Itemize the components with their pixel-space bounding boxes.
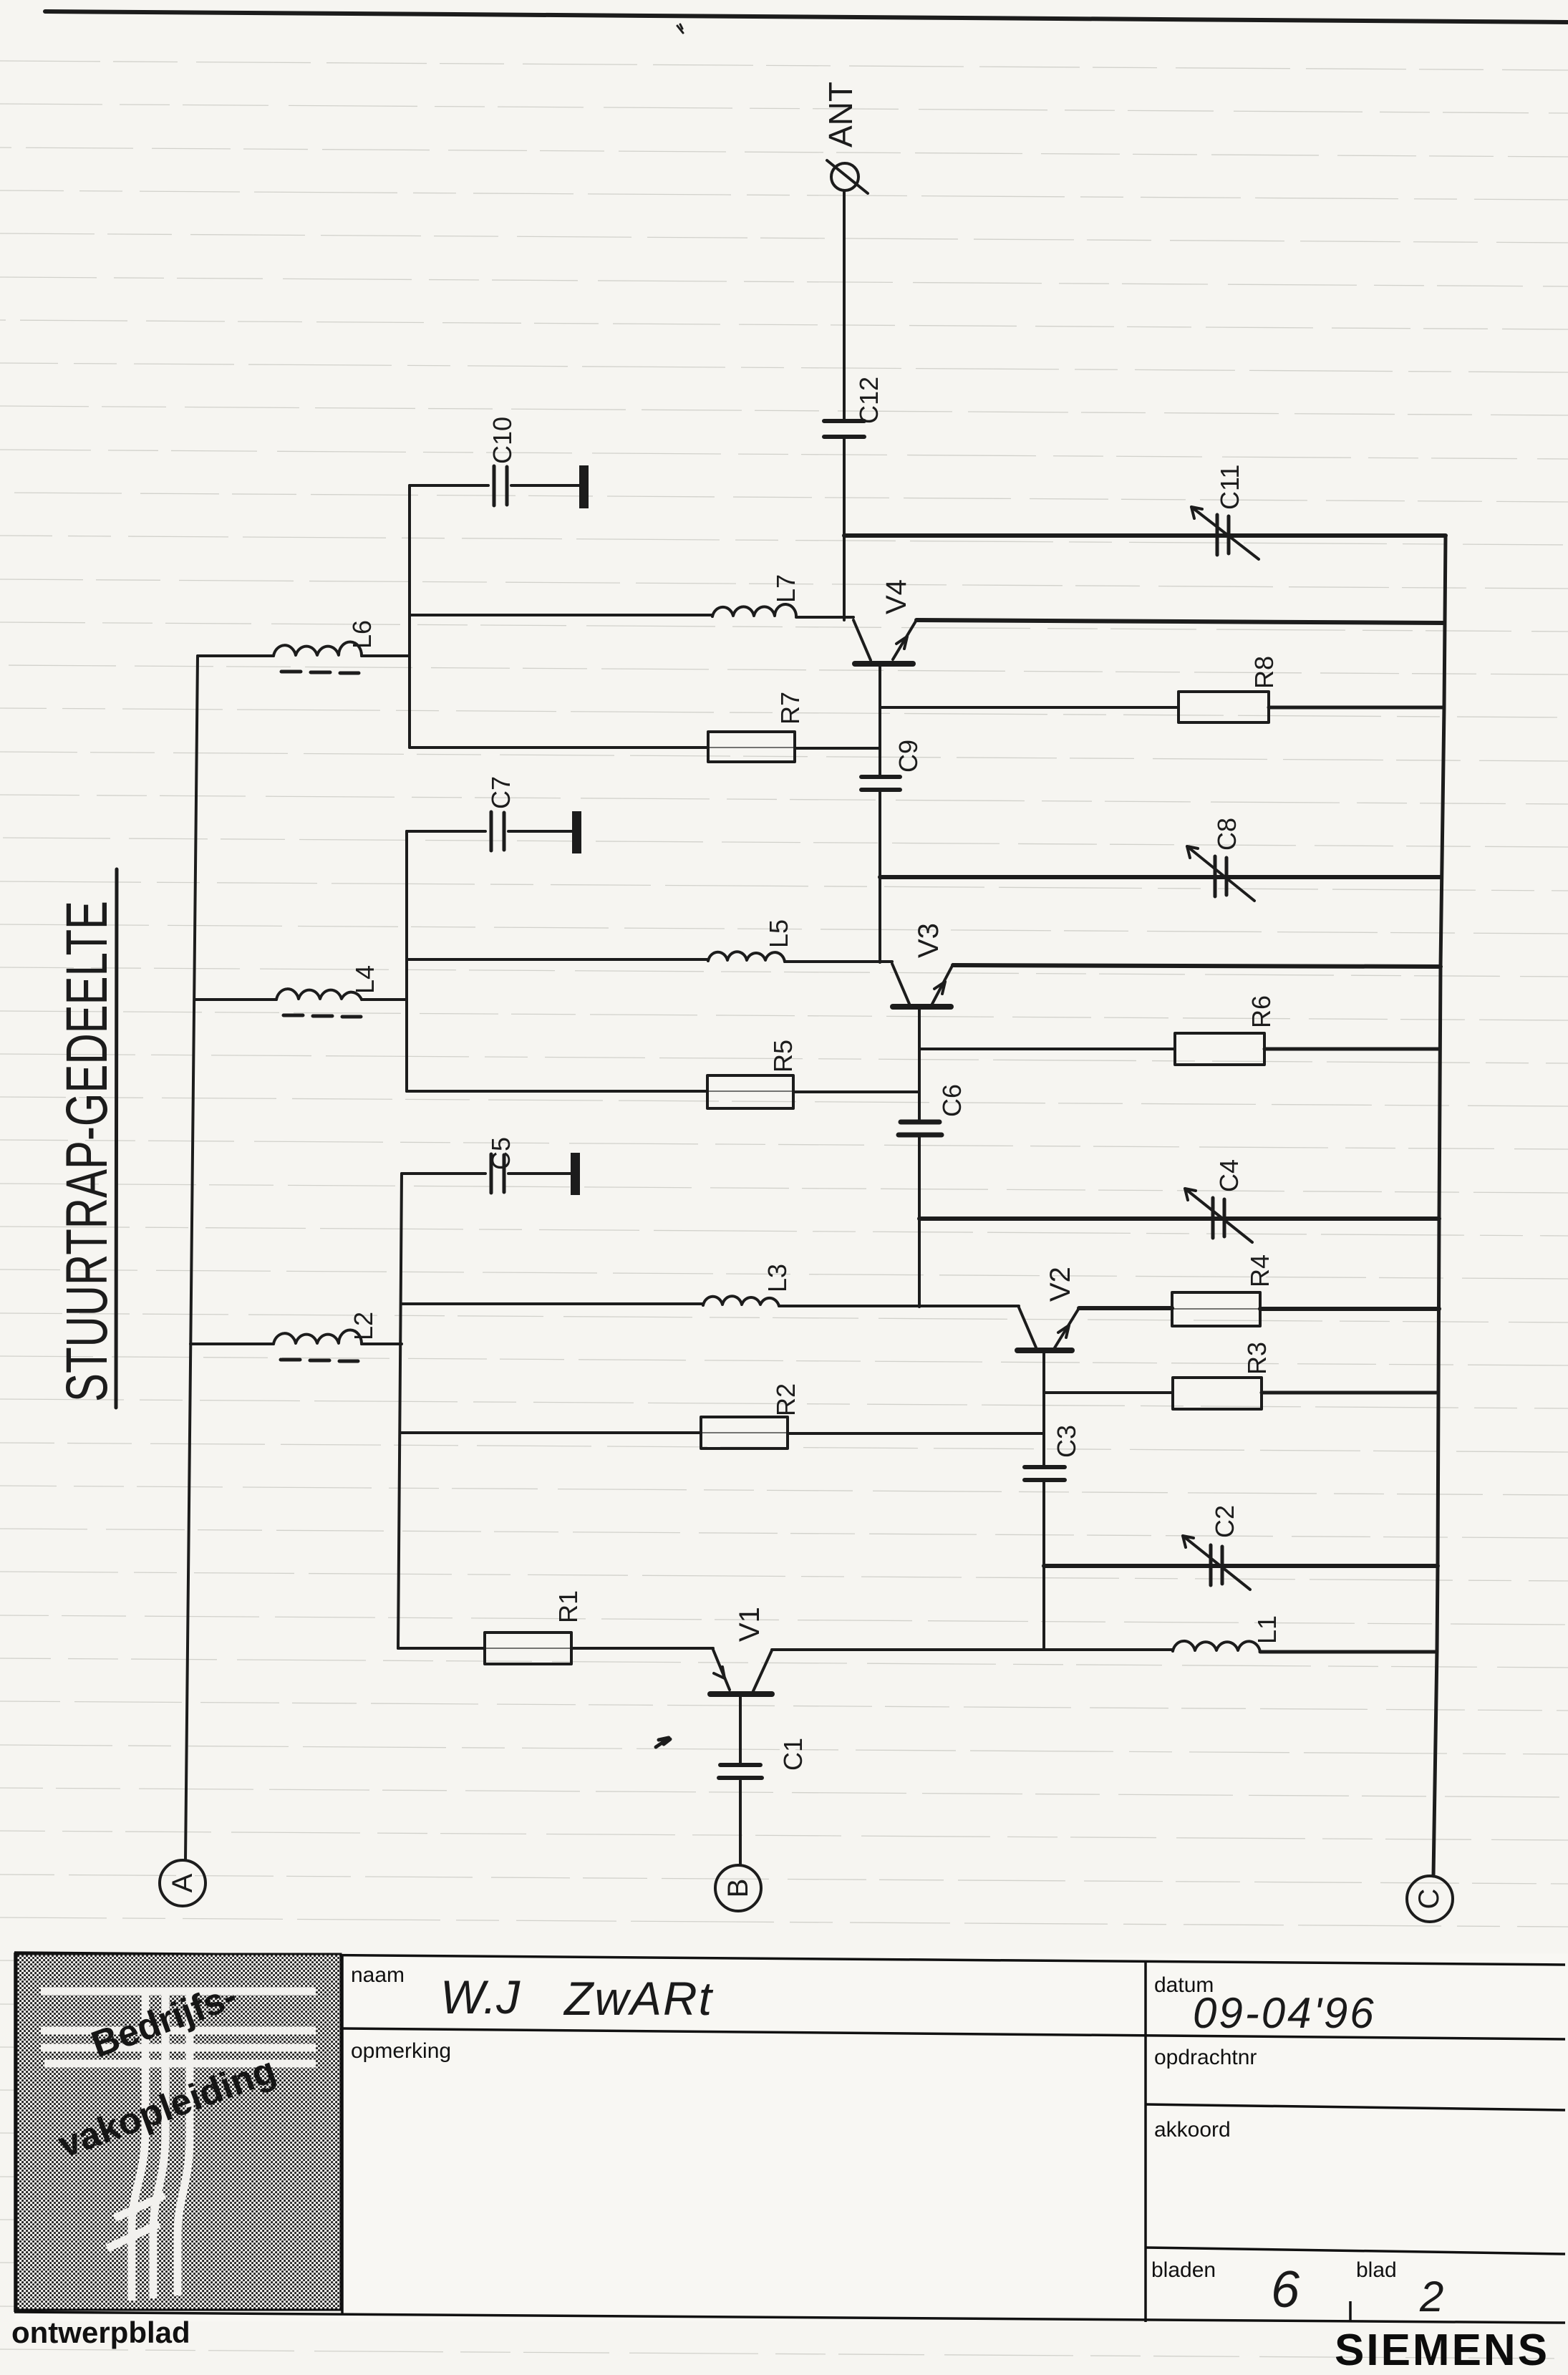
capacitor C4 (variable): [1213, 1198, 1224, 1238]
bladen / blad divider: [1349, 2301, 1352, 2322]
node C terminal: [1407, 1876, 1453, 1922]
wire R5 row: [407, 1091, 919, 1092]
wire ANT down to C12: [843, 190, 846, 420]
svg-text:C10: C10: [488, 417, 517, 464]
transistor V4: [853, 620, 871, 660]
svg-text:C8: C8: [1212, 818, 1242, 851]
svg-text:C2: C2: [1210, 1505, 1239, 1538]
svg-text:R6: R6: [1247, 995, 1276, 1028]
svg-text:R3: R3: [1242, 1342, 1272, 1375]
svg-text:W.J: W.J: [440, 1970, 521, 2023]
naam row bottom line: [342, 2028, 1565, 2039]
svg-text:V1: V1: [734, 1607, 765, 1642]
wire R7 row: [410, 748, 880, 748]
wire C7 feed: [407, 830, 485, 833]
svg-text:V3: V3: [913, 923, 944, 958]
transistor V2: [1019, 1307, 1036, 1348]
svg-text:bladen: bladen: [1151, 2258, 1216, 2282]
wire stage4 left vertical: [408, 485, 411, 748]
inductor L2: [274, 1330, 362, 1344]
wire R8 row: [880, 706, 1179, 709]
capacitor C10: [494, 466, 507, 506]
node A terminal: [160, 1860, 205, 1906]
svg-text:R2: R2: [771, 1383, 800, 1416]
svg-text:ontwerpblad: ontwerpblad: [11, 2316, 190, 2349]
capacitor C8 (variable): [1215, 856, 1226, 896]
svg-text:opmerking: opmerking: [351, 2039, 451, 2063]
capacitor C11 (variable): [1217, 515, 1229, 555]
svg-text:R1: R1: [553, 1590, 583, 1623]
svg-text:C4: C4: [1214, 1159, 1244, 1192]
wire L6 row: [198, 654, 410, 657]
naam / datum divider: [1144, 1962, 1147, 2322]
wire V3 emitter to right bus: [953, 965, 1441, 967]
svg-text:opdrachtnr: opdrachtnr: [1154, 2046, 1257, 2069]
wire R1 row: [398, 1647, 713, 1650]
wire L3 row: [402, 1304, 1019, 1306]
wire C8 rail: [880, 875, 1441, 879]
svg-text:A: A: [167, 1873, 198, 1892]
ground (C5): [571, 1153, 580, 1195]
resistor R5: [707, 1075, 793, 1108]
wire L4 row: [195, 998, 407, 1001]
svg-text:C11: C11: [1215, 465, 1244, 510]
wire R4 to right bus: [1260, 1307, 1439, 1311]
table bottom line: [14, 2312, 1565, 2323]
svg-text:L4: L4: [350, 965, 379, 994]
wire C5 feed: [402, 1172, 485, 1175]
wire stage3 left vertical: [405, 831, 408, 1091]
svg-text:L7: L7: [771, 574, 800, 603]
capacitor C1: [719, 1765, 762, 1778]
wire right bus vertical: [1433, 536, 1446, 1876]
svg-text:L3: L3: [763, 1264, 792, 1292]
wire C5 to ground: [508, 1172, 571, 1175]
capacitor C12: [824, 421, 864, 437]
wire V3 base vertical: [918, 1007, 921, 1307]
node ANT terminal: [831, 163, 858, 190]
inductor L5: [708, 952, 785, 962]
wire V2 base vertical: [1042, 1351, 1045, 1650]
wire C4 rail: [919, 1216, 1439, 1221]
svg-text:R4: R4: [1245, 1254, 1274, 1287]
wire V1 emitter row to L1: [772, 1648, 1173, 1651]
capacitor C3: [1025, 1467, 1065, 1480]
svg-text:L6: L6: [347, 620, 377, 649]
wire C11 rail: [844, 533, 1446, 538]
svg-text:C6: C6: [937, 1084, 967, 1117]
title block outer top line: [14, 1953, 1565, 1965]
svg-text:STUURTRAP-GEDEELTE: STUURTRAP-GEDEELTE: [54, 901, 120, 1402]
resistor R7: [708, 732, 795, 762]
inductor L3: [703, 1296, 779, 1306]
capacitor C5: [491, 1154, 504, 1193]
resistor R6: [1175, 1033, 1264, 1065]
resistor R2: [701, 1417, 788, 1448]
wire C10 to ground: [511, 484, 580, 487]
inductor L6: [274, 642, 362, 656]
svg-text:C9: C9: [894, 740, 923, 773]
wire stage2 left vertical: [398, 1174, 402, 1648]
svg-text:L2: L2: [349, 1312, 378, 1340]
wire V1 base vertical: [739, 1697, 742, 1864]
svg-text:blad: blad: [1356, 2258, 1397, 2282]
wire L5 row: [407, 959, 892, 962]
wire C12 to L7 junction: [843, 438, 846, 620]
wire C7 to ground: [508, 830, 573, 833]
logo box (Bedrijfsvakopleiding): [16, 1954, 341, 2310]
transistor V1: [713, 1650, 730, 1690]
wire C2 rail: [1044, 1564, 1438, 1568]
wire V4 base vertical: [879, 665, 881, 962]
capacitor C6: [899, 1122, 942, 1135]
inductor L1: [1173, 1641, 1260, 1652]
wire L1 to right bus: [1260, 1650, 1437, 1654]
svg-text:R5: R5: [768, 1040, 798, 1073]
node B terminal: [715, 1865, 761, 1911]
svg-text:B: B: [722, 1879, 754, 1898]
wire A rail vertical: [185, 656, 198, 1860]
capacitor C2 (variable): [1211, 1545, 1222, 1585]
resistor R3: [1173, 1378, 1262, 1409]
svg-text:C3: C3: [1052, 1425, 1081, 1458]
svg-text:L5: L5: [764, 919, 793, 948]
wire V2 emitter to R4: [1079, 1306, 1172, 1310]
capacitor C7: [491, 812, 504, 851]
resistor R1: [485, 1632, 571, 1664]
inductor L4: [276, 989, 362, 1000]
svg-text:C5: C5: [486, 1137, 516, 1170]
svg-text:C: C: [1413, 1889, 1445, 1910]
svg-text:C12: C12: [854, 377, 884, 424]
resistor R4: [1172, 1292, 1260, 1326]
stray pen scribble: [656, 1738, 670, 1747]
svg-text:akkoord: akkoord: [1154, 2118, 1231, 2142]
svg-text:2: 2: [1419, 2273, 1443, 2321]
svg-text:R8: R8: [1249, 656, 1279, 689]
capacitor C9: [861, 777, 900, 790]
title block left edge: [14, 1953, 16, 2312]
resistor R8: [1179, 692, 1269, 722]
transistor V3: [892, 964, 909, 1004]
svg-text:C1: C1: [778, 1738, 808, 1771]
akkoord bottom line: [1146, 2248, 1565, 2254]
svg-text:6: 6: [1271, 2261, 1300, 2318]
top border frame line: [45, 11, 1567, 22]
wire L2 row: [190, 1343, 402, 1345]
ground (C7): [572, 811, 581, 853]
svg-text:C7: C7: [486, 776, 516, 809]
svg-text:ZwARt: ZwARt: [563, 1972, 714, 2025]
opdrachtnr bottom line: [1146, 2104, 1565, 2110]
wire L7 row: [410, 615, 853, 617]
stray scan speck: [677, 24, 683, 33]
svg-text:naam: naam: [351, 1963, 405, 1987]
svg-text:SIEMENS: SIEMENS: [1335, 2326, 1549, 2375]
svg-text:09-04'96: 09-04'96: [1193, 1989, 1376, 2037]
svg-text:L1: L1: [1252, 1615, 1282, 1644]
svg-text:R7: R7: [775, 692, 805, 725]
svg-text:V4: V4: [881, 579, 912, 614]
wire R3 row: [1044, 1391, 1173, 1394]
svg-text:ANT: ANT: [822, 82, 859, 147]
wire V4 emitter to right bus: [916, 620, 1444, 623]
svg-text:V2: V2: [1045, 1267, 1076, 1302]
wire R6 row: [919, 1048, 1175, 1050]
wire R2 row: [402, 1433, 1044, 1433]
inductor L7: [712, 604, 796, 617]
ground (C10): [579, 465, 589, 508]
wire C10 feed: [410, 484, 488, 487]
